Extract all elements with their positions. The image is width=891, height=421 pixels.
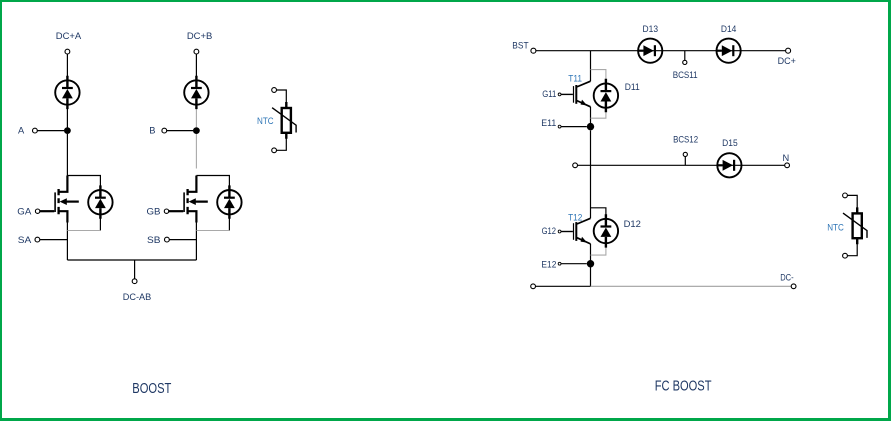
- svg-text:DC-: DC-: [780, 273, 793, 283]
- svg-text:BCS11: BCS11: [673, 70, 698, 80]
- svg-text:GB: GB: [147, 206, 161, 216]
- svg-text:DC+B: DC+B: [187, 31, 213, 41]
- svg-text:G11: G11: [542, 89, 556, 99]
- svg-text:SB: SB: [147, 235, 161, 245]
- svg-text:B: B: [149, 125, 155, 135]
- svg-text:A: A: [18, 125, 25, 135]
- svg-text:N: N: [783, 153, 790, 163]
- svg-text:D11: D11: [625, 82, 640, 92]
- svg-text:GA: GA: [17, 206, 32, 216]
- svg-text:NTC: NTC: [827, 222, 844, 232]
- svg-text:E11: E11: [541, 118, 556, 128]
- svg-text:D14: D14: [721, 24, 737, 34]
- svg-text:D12: D12: [624, 219, 641, 229]
- svg-text:SA: SA: [18, 235, 32, 245]
- svg-text:NTC: NTC: [257, 116, 274, 126]
- svg-text:DC+: DC+: [778, 56, 796, 66]
- svg-text:T12: T12: [568, 212, 582, 222]
- svg-text:DC-AB: DC-AB: [123, 292, 152, 302]
- svg-text:D13: D13: [643, 24, 659, 34]
- svg-text:E12: E12: [541, 259, 556, 269]
- svg-text:D15: D15: [722, 138, 738, 148]
- svg-text:BOOST: BOOST: [132, 380, 171, 397]
- svg-text:FC BOOST: FC BOOST: [655, 377, 712, 394]
- svg-text:T11: T11: [568, 73, 582, 83]
- svg-text:G12: G12: [542, 226, 556, 236]
- svg-text:BST: BST: [512, 41, 529, 51]
- svg-text:BCS12: BCS12: [673, 135, 698, 145]
- svg-text:DC+A: DC+A: [56, 31, 82, 41]
